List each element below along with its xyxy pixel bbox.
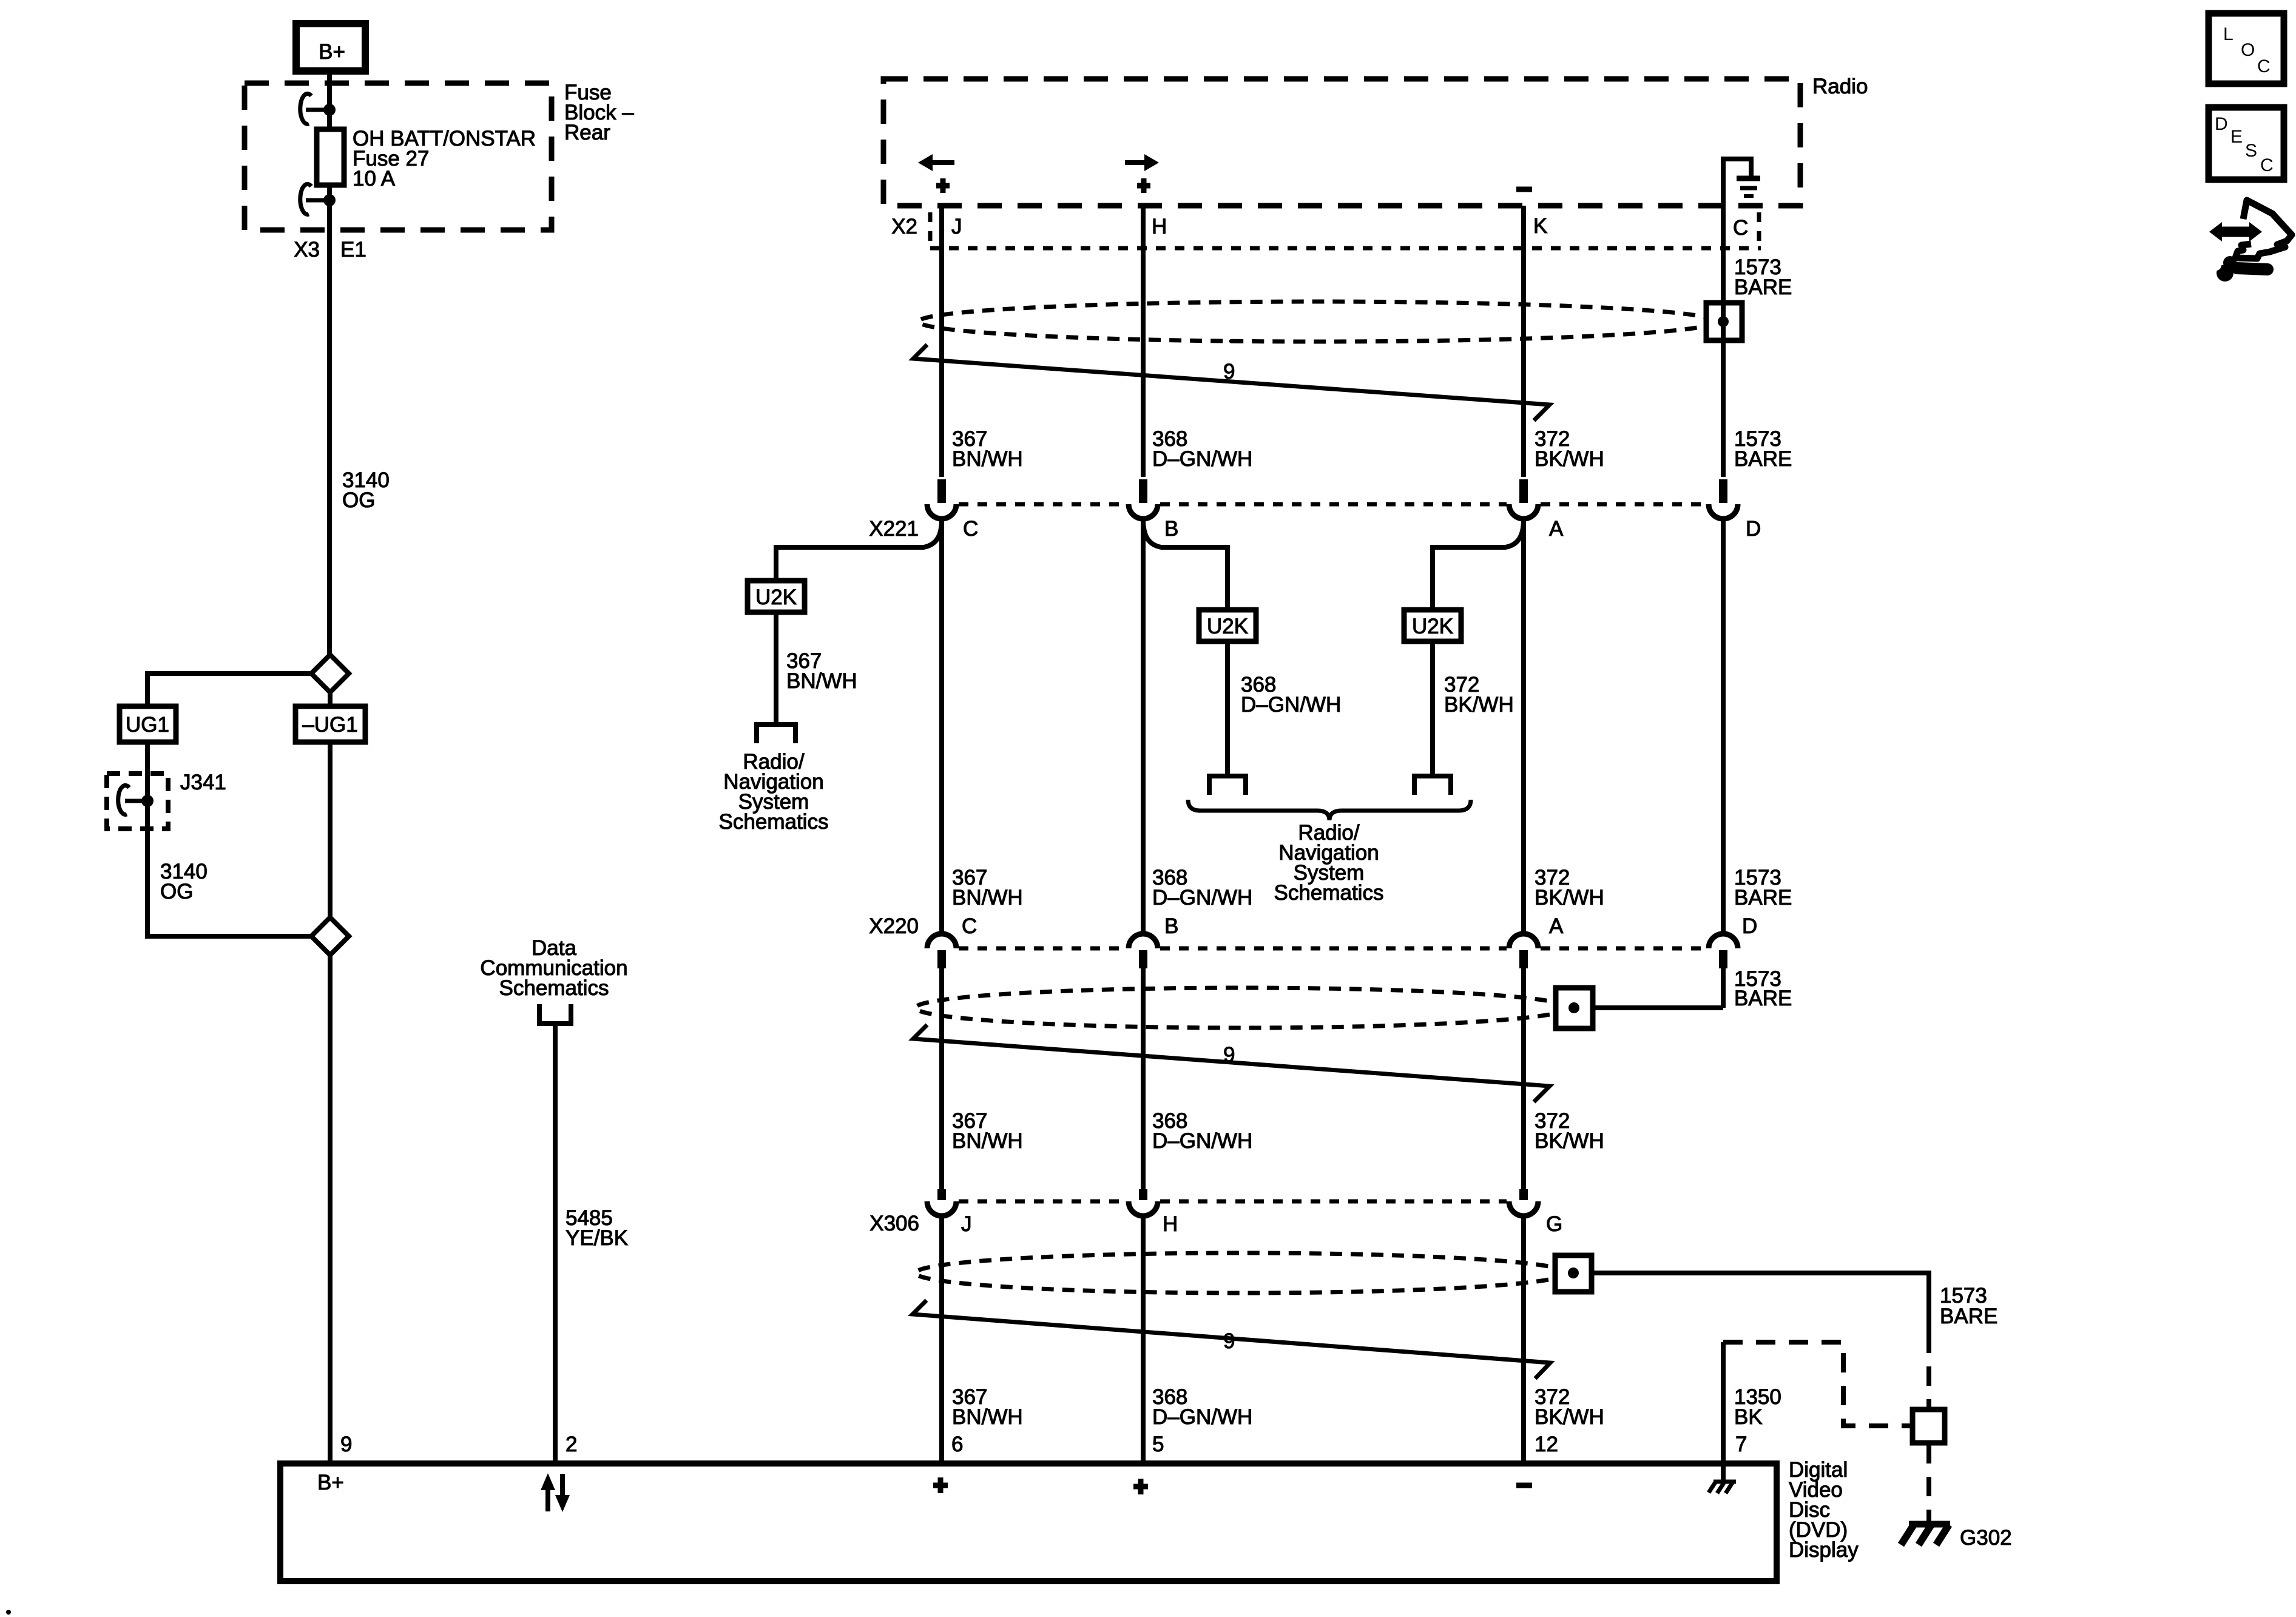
svg-text:X220: X220: [869, 914, 919, 938]
fuse clip upper: [323, 104, 336, 116]
DVD plus pin 5: [1133, 1484, 1148, 1490]
svg-text:A: A: [1549, 517, 1564, 541]
radio dashed box: [883, 79, 1800, 206]
wire 368 X221 to X220: [1141, 519, 1146, 935]
svg-text:D: D: [1742, 914, 1757, 938]
svg-text:C: C: [962, 914, 977, 938]
svg-text:9: 9: [340, 1433, 352, 1456]
svg-text:Rear: Rear: [564, 121, 610, 144]
svg-text:OG: OG: [160, 880, 193, 903]
DESC legend box: [2209, 107, 2284, 180]
svg-text:C: C: [2260, 155, 2274, 175]
svg-text:BK: BK: [1734, 1405, 1763, 1429]
wire branch 368 to U2K: [1143, 519, 1227, 610]
data communication half connector: [539, 1004, 571, 1024]
svg-text:C: C: [1733, 216, 1748, 240]
svg-text:BK/WH: BK/WH: [1535, 447, 1604, 471]
svg-text:D–GN/WH: D–GN/WH: [1241, 693, 1341, 717]
radio right audio arrow: [1125, 160, 1144, 165]
wire 1573 X220-D down: [1721, 968, 1726, 1008]
wire 367 X306 to DVD: [939, 1216, 944, 1463]
svg-text:U2K: U2K: [755, 586, 797, 609]
svg-text:9: 9: [1223, 360, 1235, 383]
DVD display box: [280, 1463, 1777, 1581]
svg-text:X3: X3: [294, 238, 320, 262]
svg-text:5: 5: [1152, 1433, 1164, 1456]
connector X220 pin B: [1129, 934, 1158, 948]
svg-text:BARE: BARE: [1734, 275, 1792, 299]
wire 372 X220 to X306: [1521, 968, 1526, 1190]
twisted pair symbol 9 row 2: [913, 1025, 1550, 1102]
svg-text:H: H: [1163, 1212, 1178, 1236]
svg-text:Radio: Radio: [1812, 75, 1868, 98]
svg-text:E1: E1: [340, 238, 366, 262]
svg-text:6: 6: [951, 1433, 963, 1456]
connector X221 pin C: [937, 479, 946, 503]
connector U2K 3: [1404, 610, 1461, 641]
svg-text:D: D: [2215, 114, 2228, 134]
svg-text:J: J: [951, 215, 962, 238]
svg-text:Schematics: Schematics: [1274, 881, 1384, 905]
svg-text:UG1: UG1: [126, 713, 169, 737]
connector X2 left stub: [928, 212, 933, 246]
DVD internal ground pin 7: [1721, 1463, 1726, 1483]
svg-text:E: E: [2230, 127, 2243, 147]
svg-text:D–GN/WH: D–GN/WH: [1152, 886, 1252, 910]
shield drain box 1: [1706, 303, 1742, 340]
connector X221 pin D: [1719, 479, 1727, 503]
svg-text:X2: X2: [891, 215, 917, 238]
svg-text:BK/WH: BK/WH: [1535, 1129, 1604, 1153]
svg-text:G302: G302: [1960, 1526, 2012, 1550]
twisted pair symbol 9 row 3: [913, 1300, 1550, 1379]
wire 368 X220 to X306: [1141, 968, 1146, 1190]
svg-text:12: 12: [1535, 1433, 1558, 1456]
svg-text:Schematics: Schematics: [499, 976, 609, 1000]
svg-text:D–GN/WH: D–GN/WH: [1152, 1129, 1252, 1153]
wire U2K2 down: [1225, 641, 1230, 775]
svg-text:A: A: [1549, 914, 1564, 938]
DVD data arrows: [545, 1488, 550, 1511]
connector X2 row line: [930, 246, 1761, 251]
svg-text:D–GN/WH: D–GN/WH: [1152, 447, 1252, 471]
svg-text:B+: B+: [317, 1471, 344, 1494]
svg-text:U2K: U2K: [1207, 615, 1248, 638]
svg-text:BN/WH: BN/WH: [952, 886, 1023, 910]
LOC legend box: [2209, 13, 2284, 84]
connector X221 pin A: [1519, 479, 1528, 503]
service icon outline: [2235, 200, 2292, 258]
fuse block rear dashed box: [245, 83, 552, 230]
radio left audio arrow: [933, 160, 954, 165]
svg-text:2: 2: [566, 1433, 577, 1456]
connector X306 pin H: [1139, 1189, 1147, 1200]
connector X220 pin C: [927, 934, 956, 948]
connector UG1 box: [120, 706, 176, 742]
svg-text:C: C: [2257, 56, 2271, 76]
ground G302: [1909, 1521, 1950, 1528]
half connector below U2K1: [757, 724, 795, 743]
page corner dot: [6, 1610, 11, 1615]
svg-text:H: H: [1152, 215, 1167, 238]
wire 1573 X221 to X220: [1721, 519, 1726, 935]
wire C bare shield from radio: [1721, 206, 1726, 477]
wire 368 X306 to DVD: [1141, 1216, 1146, 1463]
connector X2 right stub: [1757, 212, 1761, 246]
twisted pair symbol 9 row 1: [913, 345, 1550, 420]
shield ellipse 1: [919, 302, 1716, 342]
connector X221 row line: [959, 502, 1126, 507]
wire K from radio: [1521, 206, 1526, 477]
connector X220 row line: [959, 947, 1126, 951]
svg-text:BN/WH: BN/WH: [786, 669, 857, 693]
wire UG1 to lower junction: [147, 742, 311, 936]
connector X220 pin D: [1709, 934, 1738, 948]
connector -UG1 box: [328, 692, 333, 706]
wire 1573 dashed down to splice: [1926, 1334, 1931, 1408]
radio plus pin H: [1137, 183, 1150, 189]
svg-text:G: G: [1546, 1212, 1562, 1236]
wire 3140 OG main vertical from B+ to DVD pin 9: [327, 67, 332, 657]
radio minus pin K: [1516, 187, 1532, 192]
svg-text:D: D: [1746, 517, 1761, 541]
svg-text:BARE: BARE: [1734, 447, 1792, 471]
DVD minus pin 12: [1516, 1483, 1532, 1488]
svg-text:9: 9: [1223, 1043, 1235, 1067]
svg-text:U2K: U2K: [1412, 615, 1453, 638]
wire 372 X306 to DVD: [1521, 1216, 1526, 1463]
brace under U2K branches: [1188, 800, 1471, 820]
wire branch to UG1: [147, 673, 311, 706]
service icon wrench: [2223, 256, 2237, 269]
J341 clip and junction dot: [141, 795, 154, 807]
svg-text:X221: X221: [869, 517, 919, 541]
svg-text:K: K: [1533, 214, 1547, 238]
svg-text:OG: OG: [342, 488, 375, 512]
fuse clip lower: [323, 194, 336, 206]
svg-text:J: J: [961, 1212, 972, 1236]
svg-text:J341: J341: [180, 771, 226, 794]
svg-text:Schematics: Schematics: [719, 810, 829, 834]
svg-text:BN/WH: BN/WH: [952, 447, 1023, 471]
svg-text:BARE: BARE: [1734, 987, 1792, 1010]
connector X221 pin B: [1139, 479, 1147, 503]
wire 1350 BK dashed run to splice: [1723, 1342, 1910, 1426]
shield ellipse 2: [916, 988, 1568, 1028]
wire 367 X221 to X220: [939, 519, 944, 935]
svg-text:BARE: BARE: [1734, 886, 1792, 910]
wire U2K1 down: [774, 612, 778, 723]
svg-text:B: B: [1164, 914, 1178, 938]
connector X306 pin G: [1519, 1189, 1528, 1200]
wire H from radio: [1141, 206, 1146, 477]
wire to DVD display pin 9: [328, 955, 333, 1463]
fuse OH BATT/ONSTAR Fuse 27 10 A: [317, 129, 344, 185]
svg-text:10 A: 10 A: [353, 167, 396, 191]
svg-text:B: B: [1164, 517, 1178, 541]
svg-text:D–GN/WH: D–GN/WH: [1152, 1405, 1252, 1429]
shield ellipse 3: [916, 1253, 1567, 1293]
wire 1350 BK solid from DVD pin 7: [1721, 1342, 1726, 1482]
svg-text:S: S: [2245, 141, 2257, 161]
svg-text:BK/WH: BK/WH: [1535, 886, 1604, 910]
wire 1573 bare from box3: [1592, 1273, 1929, 1334]
connector X306 pin J: [937, 1189, 946, 1200]
B+ power symbol box: [296, 24, 365, 71]
wire 367 X220 to X306: [939, 968, 944, 1190]
half connector below U2K2: [1209, 776, 1246, 795]
wire box2 to X220-D: [1593, 1005, 1723, 1010]
svg-text:BK/WH: BK/WH: [1535, 1405, 1604, 1429]
half connector below U2K3: [1414, 776, 1451, 795]
svg-text:7: 7: [1735, 1433, 1747, 1456]
splice J341 dashed box: [107, 774, 168, 829]
DVD plus pin 6: [933, 1483, 948, 1488]
connector X306 row line: [959, 1200, 1126, 1204]
svg-text:B+: B+: [319, 40, 345, 64]
wire 372 X221 to X220: [1521, 519, 1526, 935]
svg-text:BN/WH: BN/WH: [952, 1129, 1023, 1153]
svg-text:BN/WH: BN/WH: [952, 1405, 1023, 1429]
connector U2K 2: [1199, 610, 1256, 641]
splice diamond lower: [311, 917, 349, 955]
svg-text:YE/BK: YE/BK: [566, 1226, 628, 1250]
splice diamond upper: [311, 655, 349, 692]
wire J from radio: [939, 206, 944, 477]
wire branch 367 to U2K: [776, 519, 942, 581]
wire 5485 data to DVD pin 2: [553, 1025, 558, 1463]
service icon double arrow: [2220, 227, 2251, 237]
svg-text:L: L: [2223, 24, 2234, 44]
radio plus pin J: [936, 183, 950, 189]
shield drain box 2: [1556, 988, 1593, 1028]
svg-text:–UG1: –UG1: [302, 713, 357, 737]
svg-text:O: O: [2241, 40, 2255, 60]
splice square S301: [1913, 1409, 1945, 1443]
wire branch 372 to U2K: [1433, 519, 1524, 610]
wire U2K3 down: [1430, 641, 1435, 775]
svg-text:BARE: BARE: [1940, 1305, 1997, 1328]
connector X220 pin A: [1509, 934, 1538, 948]
radio internal ground pin C: [1723, 159, 1751, 206]
shield drain box 3: [1555, 1255, 1592, 1292]
svg-text:Display: Display: [1789, 1538, 1859, 1562]
svg-text:X306: X306: [869, 1212, 919, 1235]
svg-text:9: 9: [1223, 1329, 1235, 1353]
svg-text:C: C: [963, 517, 978, 541]
wire dashed splice to G302: [1926, 1444, 1931, 1522]
connector U2K 1: [748, 581, 805, 612]
svg-text:BK/WH: BK/WH: [1444, 693, 1514, 717]
